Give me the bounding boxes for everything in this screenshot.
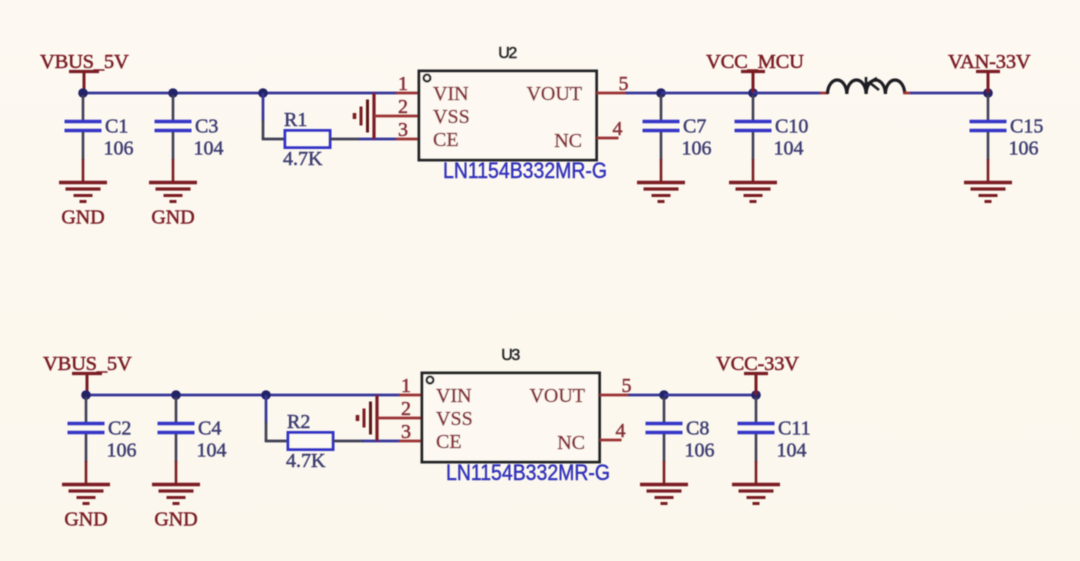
wire pin 3 lead: [396, 138, 419, 141]
junction C4 tap: [171, 390, 181, 400]
op-amp regulator U2 body: [419, 71, 597, 160]
net VCC-33V power stub: [744, 374, 768, 396]
wire pin 4 lead (NC): [600, 439, 622, 442]
junction C1 tap: [78, 88, 88, 98]
wire pin 4 lead (NC): [597, 137, 619, 140]
capacitor C11: [738, 397, 775, 485]
wire pin 1 lead: [399, 394, 422, 397]
svg-text:106: 106: [682, 138, 712, 160]
inductor L1: [828, 77, 905, 94]
svg-text:3: 3: [398, 119, 408, 141]
wire VBUS_5V bus bottom: [86, 394, 400, 397]
svg-text:1: 1: [398, 73, 408, 95]
wire L1 to VAN-33V: [910, 92, 988, 95]
svg-text:VOUT: VOUT: [529, 385, 585, 407]
ground for C1: [59, 183, 107, 229]
net VAN-33V power stub: [976, 72, 1000, 94]
svg-text:C15: C15: [1010, 116, 1043, 138]
wire C7 to VCC_MCU: [661, 92, 753, 95]
wire pin 5 lead: [600, 394, 630, 397]
ground for C7: [637, 183, 685, 202]
svg-text:C7: C7: [683, 116, 706, 138]
svg-text:CE: CE: [436, 431, 462, 453]
capacitor C8: [646, 397, 683, 485]
ground for C11: [732, 485, 780, 504]
svg-text:106: 106: [104, 138, 134, 160]
svg-text:VOUT: VOUT: [526, 83, 582, 105]
junction R1 tap: [258, 88, 268, 98]
svg-text:C1: C1: [105, 116, 128, 138]
ground for VSS pin of U3 (rotated): [358, 395, 378, 441]
wire VCC_MCU to L1: [753, 92, 821, 95]
ground for C2: [62, 485, 110, 531]
wire R2 to CE: [333, 440, 400, 443]
svg-text:106: 106: [685, 440, 715, 462]
junction VCC_MCU / C10 tap: [748, 88, 758, 98]
svg-text:R1: R1: [284, 109, 307, 131]
capacitor C7: [643, 95, 680, 183]
capacitor C1: [65, 95, 102, 183]
wire VOUT to C7: [626, 92, 662, 95]
ground for C10: [729, 183, 777, 202]
svg-text:NC: NC: [554, 130, 582, 152]
resistor R2: [288, 433, 333, 450]
capacitor C4: [158, 397, 195, 485]
junction C8 tap: [659, 390, 669, 400]
svg-text:4: 4: [613, 118, 623, 140]
svg-text:104: 104: [774, 138, 804, 160]
svg-text:106: 106: [107, 440, 137, 462]
net VBUS_5V (bottom) power stub: [72, 374, 102, 396]
svg-text:2: 2: [401, 398, 411, 420]
wire pin 5 lead: [597, 92, 627, 95]
svg-text:LN1154B332MR-G: LN1154B332MR-G: [446, 460, 610, 485]
wire pin 3 lead: [399, 440, 422, 443]
wire VBUS_5V bus top: [83, 92, 397, 95]
svg-text:VIN: VIN: [436, 385, 472, 407]
svg-text:C8: C8: [686, 418, 709, 440]
svg-text:2: 2: [398, 96, 408, 118]
svg-text:4: 4: [616, 420, 626, 442]
svg-text:104: 104: [777, 440, 807, 462]
capacitor C15: [970, 95, 1007, 183]
svg-text:VBUS_5V: VBUS_5V: [40, 51, 129, 73]
ground for C15: [964, 183, 1012, 202]
svg-text:NC: NC: [557, 432, 585, 454]
svg-text:GND: GND: [151, 207, 194, 229]
ground for VSS pin of U2 (rotated): [355, 93, 375, 139]
svg-text:VSS: VSS: [436, 408, 473, 430]
ground for C8: [640, 485, 688, 504]
wire L1 left stub: [820, 92, 828, 95]
svg-text:U2: U2: [498, 45, 517, 62]
svg-text:4.7K: 4.7K: [286, 450, 326, 472]
svg-text:C10: C10: [775, 116, 808, 138]
junction VCC-33V / C11 tap: [751, 390, 761, 400]
svg-text:GND: GND: [64, 509, 107, 531]
junction C3 tap: [168, 88, 178, 98]
capacitor C3: [155, 95, 192, 183]
svg-text:3: 3: [401, 421, 411, 443]
wire R1 branch vertical: [262, 93, 285, 139]
junction R2 tap: [261, 390, 271, 400]
svg-text:106: 106: [1009, 138, 1039, 160]
wire C8 to VCC-33V: [664, 394, 756, 397]
wire pin 2 lead: [374, 115, 419, 118]
svg-text:C4: C4: [198, 418, 221, 440]
svg-text:VAN-33V: VAN-33V: [948, 51, 1031, 73]
svg-text:VSS: VSS: [433, 106, 470, 128]
svg-text:U3: U3: [501, 347, 520, 364]
wire VOUT to C8: [629, 394, 665, 397]
svg-text:104: 104: [197, 440, 227, 462]
svg-text:GND: GND: [61, 207, 104, 229]
wire pin 1 lead: [396, 92, 419, 95]
capacitor C2: [68, 397, 105, 485]
net VBUS_5V (top) power stub: [69, 72, 99, 94]
junction C2 tap: [81, 390, 91, 400]
svg-text:CE: CE: [433, 129, 459, 151]
resistor R1: [285, 131, 330, 148]
svg-text:C3: C3: [195, 116, 218, 138]
wire L1 right stub: [904, 92, 912, 95]
junction C7 tap: [656, 88, 666, 98]
svg-text:LN1154B332MR-G: LN1154B332MR-G: [443, 158, 607, 183]
wire R2 branch vertical: [265, 395, 288, 441]
net VCC_MCU power stub: [741, 72, 765, 94]
junction VAN-33V / C15 tap: [983, 88, 993, 98]
svg-text:R2: R2: [287, 411, 310, 433]
ground for C3: [149, 183, 197, 229]
svg-text:GND: GND: [154, 509, 197, 531]
svg-text:C2: C2: [108, 418, 131, 440]
svg-text:VBUS_5V: VBUS_5V: [43, 353, 132, 375]
svg-text:C11: C11: [778, 418, 811, 440]
svg-text:VIN: VIN: [433, 83, 469, 105]
svg-text:4.7K: 4.7K: [283, 148, 323, 170]
wire R1 to CE: [330, 138, 397, 141]
capacitor C10: [735, 95, 772, 183]
svg-text:104: 104: [194, 138, 224, 160]
svg-text:VCC_MCU: VCC_MCU: [706, 51, 804, 73]
wire pin 2 lead: [377, 417, 422, 420]
op-amp regulator U3 body: [422, 373, 600, 462]
svg-text:VCC-33V: VCC-33V: [716, 353, 799, 375]
ground for C4: [152, 485, 200, 531]
svg-text:1: 1: [401, 375, 411, 397]
